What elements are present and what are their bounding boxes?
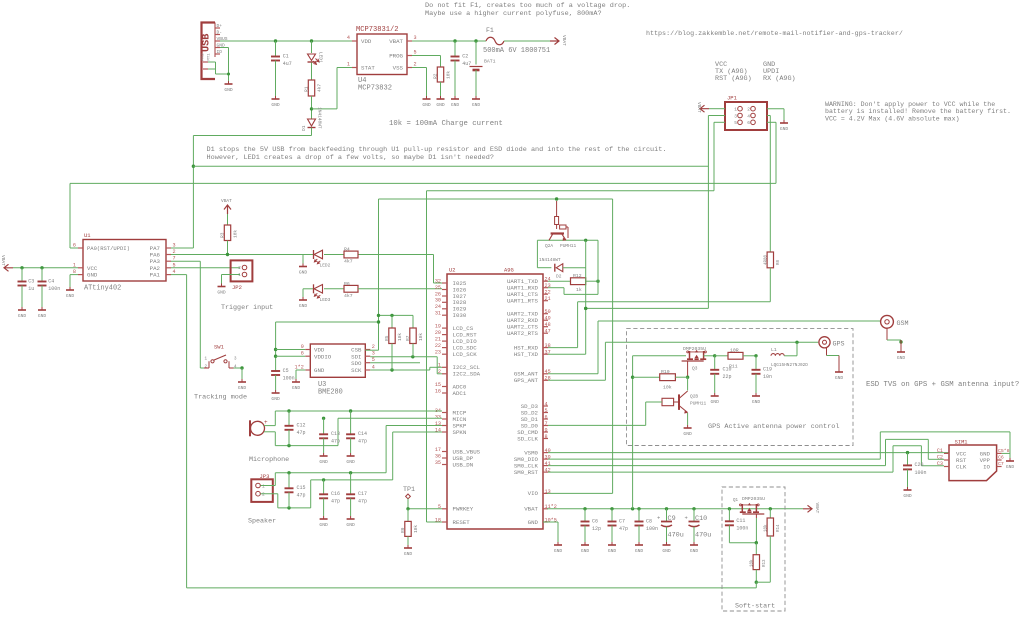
svg-text:15: 15 [435, 382, 441, 388]
capacitor C6 [581, 509, 602, 542]
svg-text:R2: R2 [433, 73, 439, 79]
power VBAT arrow soft-start [803, 503, 820, 514]
power VBAT arrow above R3 [221, 198, 232, 214]
wire SDO stub [370, 362, 420, 364]
svg-text:4k7: 4k7 [344, 259, 353, 265]
svg-text:SD_CLK: SD_CLK [517, 435, 538, 442]
power VBAT arrow left [0, 255, 13, 271]
svg-text:IO: IO [983, 464, 990, 471]
svg-text:10k: 10k [397, 333, 403, 341]
svg-text:C3: C3 [937, 461, 943, 467]
wire VDDIO feed [274, 320, 380, 371]
svg-text:47: 47 [545, 329, 551, 335]
svg-text:GND: GND [451, 102, 460, 108]
op-amp U4 MCP73831 charger IC [347, 26, 417, 93]
svg-text:C5: C5 [283, 368, 289, 374]
wire mic bottom loop [275, 418, 338, 447]
capacitor C7 [608, 509, 629, 542]
wire JP1 RX down [767, 122, 776, 183]
svg-text:GPS Active antenna power contr: GPS Active antenna power control [708, 423, 839, 431]
resistor R13 [749, 543, 767, 584]
wire PA1 to soft-start [171, 275, 187, 588]
svg-text:1: 1 [438, 363, 441, 369]
svg-text:SIM1: SIM1 [955, 440, 968, 446]
IC U2 A9G GSM/GPS module [435, 268, 557, 530]
svg-text:30: 30 [435, 298, 441, 304]
ground under C18 [711, 393, 720, 405]
power VBAT arrow at JP1 [696, 102, 725, 113]
svg-text:ESD TVS on GPS + GSM antenna i: ESD TVS on GPS + GSM antenna input? [866, 381, 1019, 389]
svg-text:R9: R9 [400, 527, 406, 533]
svg-text:6: 6 [545, 414, 548, 420]
svg-text:1: 1 [262, 483, 265, 489]
svg-text:R13: R13 [763, 559, 767, 567]
resistor R1 [304, 63, 323, 97]
svg-text:SW1: SW1 [214, 344, 225, 351]
svg-text:Do not fit F1, creates too muc: Do not fit F1, creates too much of a vol… [425, 2, 630, 10]
wire VIO pin [547, 492, 613, 494]
svg-text:PWRKEY: PWRKEY [453, 506, 474, 513]
svg-text:BAT1: BAT1 [484, 59, 496, 65]
LED LED1 [308, 41, 324, 65]
svg-text:C6: C6 [592, 518, 598, 524]
svg-text:C1: C1 [937, 448, 943, 454]
IC U3 BME280 [295, 344, 375, 397]
svg-text:DMP2035U: DMP2035U [742, 496, 765, 502]
svg-text:10k: 10k [413, 525, 419, 533]
svg-text:VBAT: VBAT [0, 255, 6, 266]
svg-text:GPS: GPS [833, 340, 845, 348]
svg-text:Tracking mode: Tracking mode [194, 394, 247, 402]
svg-text:C6: C6 [998, 455, 1004, 461]
svg-text:SPKN: SPKN [453, 429, 467, 436]
capacitor C15 [285, 473, 306, 508]
ground under C6 [581, 542, 590, 554]
capacitor C2 [451, 41, 472, 96]
capacitor C14 [346, 411, 367, 453]
svg-text:+: + [264, 419, 268, 426]
resistor R14 [756, 509, 781, 582]
svg-text:C1: C1 [283, 53, 289, 59]
capacitor C3 [18, 268, 35, 307]
svg-text:SDO: SDO [351, 360, 362, 367]
label Microphone [249, 456, 289, 464]
svg-text:VBAT: VBAT [696, 102, 702, 113]
ground at SIM1 [1006, 458, 1015, 470]
svg-text:JP1: JP1 [727, 95, 738, 102]
wire RST trunk [427, 191, 715, 522]
svg-text:10n: 10n [763, 374, 772, 380]
svg-text:VDD: VDD [361, 38, 372, 45]
svg-text:R7: R7 [405, 335, 411, 341]
svg-text:R10: R10 [661, 369, 670, 375]
ground under C20 [903, 487, 912, 499]
svg-text:2: 2 [372, 344, 375, 350]
svg-text:3: 3 [372, 351, 375, 357]
wire SPKP net [261, 426, 443, 486]
svg-text:LED2: LED2 [320, 263, 331, 269]
wire JP1 UPDI to R8 [767, 116, 770, 253]
svg-text:VDDIO: VDDIO [314, 353, 332, 360]
ground under C8 [635, 542, 644, 554]
svg-text:C10: C10 [695, 515, 707, 523]
svg-text:R3: R3 [220, 232, 226, 238]
ground under GSM connector [897, 349, 906, 361]
svg-text:25: 25 [435, 285, 441, 291]
svg-text:GND: GND [422, 102, 431, 108]
svg-text:47p: 47p [358, 439, 367, 445]
wire PA6 net [171, 253, 442, 283]
resistor R5 [384, 315, 403, 370]
svg-text:22: 22 [545, 290, 551, 296]
svg-text:470u: 470u [695, 532, 711, 540]
svg-text:GND: GND [554, 548, 563, 554]
wire JP1 pin2 to ground [767, 109, 784, 120]
wire D2 loop [537, 239, 598, 355]
wire SIM GND [1002, 453, 1010, 458]
wire SPKN net [261, 432, 443, 510]
svg-text:10R: 10R [730, 347, 739, 353]
LED LED2 [314, 250, 331, 269]
svg-text:C13: C13 [331, 431, 340, 437]
label Speaker [248, 518, 276, 526]
svg-text:F1: F1 [486, 27, 494, 34]
wire U1 GND [70, 275, 78, 287]
svg-text:However, LED1 creates a drop o: However, LED1 creates a drop of a few vo… [207, 154, 494, 162]
wire VCC to U1 [13, 266, 78, 269]
wire CSB to VIO rail [365, 349, 378, 351]
note charge current [389, 120, 503, 128]
svg-text:LQG15HN27NJ02D: LQG15HN27NJ02D [771, 363, 808, 368]
svg-text:4R00: 4R00 [764, 254, 768, 265]
wire UART1_RTS R8 link [548, 302, 770, 348]
svg-text:GND: GND [780, 126, 789, 132]
svg-text:STAT: STAT [361, 65, 375, 72]
svg-text:RESET: RESET [453, 519, 471, 526]
ground at JP1 [780, 120, 789, 132]
dashed box GPS antenna control [627, 329, 854, 446]
svg-text:GND: GND [314, 367, 325, 374]
svg-text:1N4148WT: 1N4148WT [317, 107, 323, 129]
svg-text:4: 4 [747, 113, 750, 119]
resistor R3 [220, 214, 239, 255]
svg-text:GND: GND [608, 548, 617, 554]
svg-text:VBAT: VBAT [561, 35, 567, 46]
svg-text:3: 3 [734, 113, 737, 119]
test point TP1 [403, 486, 415, 509]
svg-text:GND: GND [690, 548, 699, 554]
wire BME GND [296, 370, 305, 379]
capacitor C13 [319, 418, 340, 453]
wire SIM0_RST net [548, 446, 944, 472]
svg-text:28: 28 [545, 376, 551, 382]
wire GSM_ANT [548, 321, 881, 374]
svg-text:100n: 100n [646, 526, 658, 532]
svg-text:GND: GND [346, 522, 355, 528]
svg-text:U2: U2 [449, 268, 455, 274]
wire I2C pullup rail [377, 314, 413, 328]
wire BME VDD [276, 349, 306, 351]
svg-text:UART2_RTS: UART2_RTS [507, 330, 539, 337]
diode D1 1N4148WT [301, 107, 323, 131]
wire SW1 to ground [234, 366, 244, 379]
svg-text:3: 3 [173, 243, 176, 249]
svg-text:GND: GND [238, 385, 247, 391]
svg-text:10k: 10k [418, 333, 424, 341]
ground under LED3 [299, 297, 308, 309]
wire GSM connector ground tail [887, 328, 903, 349]
ground under C2 [451, 96, 460, 108]
capacitor C4 [38, 268, 61, 307]
svg-text:LED1: LED1 [318, 52, 324, 63]
svg-text:PUMH11: PUMH11 [560, 243, 577, 249]
ground under C13 [319, 453, 328, 465]
svg-text:5: 5 [545, 408, 548, 414]
resistor R4 [344, 247, 358, 265]
svg-text:GND: GND [752, 399, 761, 405]
svg-text:GND: GND [271, 102, 280, 108]
svg-text:24: 24 [435, 304, 441, 310]
capacitor C11 [725, 509, 758, 545]
connector SIM1 [937, 440, 1010, 481]
transistor Q3 DMP2035U [682, 346, 717, 372]
svg-text:47p: 47p [297, 493, 306, 499]
wire F1 to VBAT arrow [504, 40, 550, 42]
wire soft-start trunk [187, 587, 757, 589]
wire PA2 to JP2 [171, 267, 240, 269]
resistor R15 base [662, 398, 674, 405]
svg-text:LED3: LED3 [320, 297, 331, 303]
svg-text:GND: GND [224, 87, 233, 93]
svg-text:32: 32 [435, 278, 441, 284]
svg-text:9: 9 [545, 427, 548, 433]
svg-text:RX (A9G): RX (A9G) [763, 75, 796, 83]
svg-text:I030: I030 [453, 312, 467, 319]
svg-text:GND: GND [299, 303, 308, 309]
svg-text:21: 21 [435, 337, 441, 343]
battery BAT1 [470, 41, 496, 96]
svg-text:GPS_ANT: GPS_ANT [514, 377, 539, 384]
ground at JP2 [217, 284, 226, 296]
svg-text:36: 36 [435, 453, 441, 459]
svg-text:10k: 10k [763, 524, 768, 532]
svg-text:C14: C14 [358, 431, 367, 437]
note D1 backfeed [207, 146, 667, 162]
svg-text:17: 17 [435, 447, 441, 453]
svg-text:1: 1 [347, 62, 350, 68]
svg-text:VBAT: VBAT [524, 506, 538, 513]
wire PWRKEY net [406, 507, 442, 521]
inductor L1 [771, 347, 808, 368]
capacitor C20 [903, 453, 927, 487]
svg-text:10k: 10k [445, 71, 451, 79]
ground under R2 [436, 96, 445, 108]
svg-text:12p: 12p [592, 526, 601, 532]
ground under C7 [608, 542, 617, 554]
resistor R2 [433, 67, 452, 96]
svg-text:49: 49 [545, 316, 551, 322]
svg-text:1k: 1k [576, 287, 582, 293]
ground under GPS connector [835, 369, 844, 381]
svg-text:SM0_RST: SM0_RST [514, 469, 539, 476]
svg-text:MCP73831/2: MCP73831/2 [356, 26, 399, 34]
svg-text:50: 50 [545, 309, 551, 315]
svg-text:VBAT: VBAT [221, 198, 232, 204]
ground under SW1 [238, 379, 247, 391]
svg-text:DMP2035U: DMP2035U [683, 346, 706, 352]
svg-text:2: 2 [438, 369, 441, 375]
svg-text:GND: GND [581, 548, 590, 554]
diode D2 1N4148WT [537, 257, 585, 280]
ground under C19 [752, 393, 761, 405]
svg-text:GND: GND [319, 459, 328, 465]
svg-text:Trigger input: Trigger input [221, 304, 273, 312]
svg-text:GND: GND [66, 293, 75, 299]
svg-text:Q1: Q1 [733, 499, 739, 503]
wire VSIM0 net [548, 451, 949, 454]
svg-text:2: 2 [747, 107, 750, 113]
svg-text:GND: GND [271, 396, 280, 402]
svg-text:battery is installed! Remove t: battery is installed! Remove the battery… [825, 108, 1011, 115]
note url [646, 30, 903, 38]
svg-text:5: 5 [414, 50, 417, 56]
svg-text:GSM: GSM [897, 320, 909, 328]
capacitor C18 22p [710, 356, 731, 393]
svg-text:L1: L1 [771, 347, 777, 353]
wire U4 PROG to R2 [412, 56, 441, 68]
svg-text:4k7: 4k7 [344, 293, 353, 299]
svg-text:U1: U1 [84, 232, 91, 239]
wire Q1 gate [755, 515, 757, 543]
svg-text:6: 6 [73, 243, 76, 249]
svg-text:D2: D2 [556, 274, 562, 280]
svg-text:47p: 47p [331, 439, 340, 445]
capacitor C8 [635, 509, 659, 542]
svg-text:20: 20 [435, 330, 441, 336]
svg-text:+: + [657, 515, 660, 522]
label Tracking mode [194, 394, 247, 402]
ground under C3 [18, 307, 27, 319]
svg-text:8: 8 [545, 434, 548, 440]
svg-text:VSS: VSS [393, 65, 404, 72]
svg-text:100n: 100n [283, 375, 295, 381]
ground under C4 [38, 307, 47, 319]
svg-text:10k: 10k [232, 230, 238, 238]
svg-text:BME280: BME280 [318, 389, 343, 397]
wire SIM0_DIO net [548, 432, 1010, 459]
svg-text:Speaker: Speaker [248, 518, 276, 526]
ground under C17 [346, 516, 355, 528]
svg-text:10k = 100mA Charge current: 10k = 100mA Charge current [389, 120, 503, 128]
transistor Q2B PUMH11 [674, 377, 707, 413]
ground under C9 [662, 542, 671, 554]
svg-text:VBAT: VBAT [814, 503, 820, 514]
svg-text:GND: GND [217, 290, 226, 296]
wire LED3 cathode to ground [302, 289, 304, 297]
svg-text:33: 33 [435, 414, 441, 420]
ground under LED2 [299, 264, 308, 276]
wire BME VDDIO [276, 355, 306, 357]
wire L1 to GPS line [796, 342, 798, 356]
fuse F1 [483, 27, 550, 55]
IC U1 ATtiny402 [73, 232, 176, 293]
wire VBUS from USB to U4 VDD [220, 39, 352, 42]
wire MICP net [275, 409, 442, 425]
svg-text:GND: GND [38, 313, 47, 319]
svg-text:C15: C15 [297, 485, 306, 491]
resistor R8 [764, 252, 781, 302]
svg-text:C3: C3 [28, 278, 34, 284]
svg-text:PA1: PA1 [150, 272, 161, 279]
svg-text:Q2B: Q2B [690, 394, 698, 400]
transistor Q2A PUMH11 [545, 201, 577, 249]
resistor R12 [548, 273, 600, 293]
wire JP2 pin1 to ground [222, 275, 241, 284]
resistor R7 [405, 328, 424, 357]
capacitor C16 [319, 480, 340, 516]
svg-text:GND: GND [18, 313, 27, 319]
svg-text:MCP73832: MCP73832 [358, 85, 392, 93]
resistor R9 [400, 521, 419, 545]
label Trigger input [221, 304, 273, 312]
svg-text:Q2A: Q2A [545, 243, 553, 249]
power VBAT arrow right [550, 35, 567, 46]
svg-text:R12: R12 [573, 273, 582, 279]
wire MICN net [322, 417, 442, 420]
svg-text:UART1_RTS: UART1_RTS [507, 298, 539, 305]
wire GPS_ANT [548, 341, 818, 381]
wire JP1 TX down to HST_TXD net [584, 116, 725, 311]
svg-text:GND: GND [711, 399, 720, 405]
svg-text:VCC = 4.2V Max (4.6V absolute: VCC = 4.2V Max (4.6V absolute max) [825, 115, 960, 122]
connector JP2 [231, 260, 253, 291]
capacitor C5 [271, 368, 295, 390]
wire VBAT to Q3 source [631, 356, 686, 509]
resistor R10 [633, 369, 688, 391]
capacitor C12 [285, 411, 306, 446]
transistor Q1 DMP2035U [733, 496, 765, 514]
svg-text:C10: C10 [723, 367, 732, 373]
svg-text:47p: 47p [358, 499, 367, 505]
svg-text:I2C2_SDA: I2C2_SDA [453, 371, 481, 378]
svg-text:6: 6 [747, 120, 750, 126]
wire UART1_RXD jog [548, 240, 598, 294]
wire U2 GND pin [543, 522, 558, 542]
svg-text:C7: C7 [998, 461, 1004, 467]
svg-text:JP3: JP3 [260, 473, 270, 480]
ground under U2 [554, 542, 563, 554]
wire D1 down to U1 PA7 [171, 128, 312, 249]
svg-text:VIO: VIO [528, 490, 539, 497]
antenna connector GPS [819, 337, 845, 349]
svg-text:31: 31 [435, 311, 441, 317]
svg-text:LCD_SCK: LCD_SCK [453, 351, 478, 358]
label GPS active antenna [708, 423, 839, 431]
svg-text:GND: GND [1006, 464, 1015, 470]
note ESD TVS [866, 381, 1019, 389]
svg-text:C2: C2 [937, 455, 943, 461]
svg-text:GND: GND [404, 551, 413, 557]
svg-text:CLK: CLK [956, 464, 967, 471]
note text top [425, 2, 630, 18]
svg-text:11*2: 11*2 [545, 504, 557, 510]
svg-text:GND: GND [472, 102, 481, 108]
wire VIO trunk [379, 197, 613, 493]
svg-text:100n: 100n [736, 526, 748, 532]
svg-text:GND: GND [87, 272, 98, 279]
svg-text:C7: C7 [619, 518, 625, 524]
svg-text:2: 2 [262, 492, 265, 498]
